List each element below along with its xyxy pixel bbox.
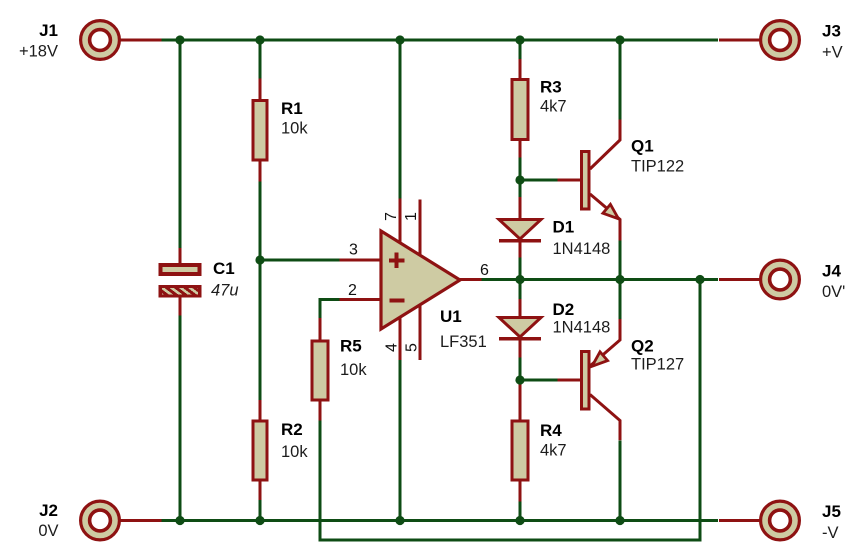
resistor R5 xyxy=(312,341,328,400)
wire opamp pin7 supply xyxy=(399,40,402,199)
pin U1 pin1 xyxy=(419,200,422,256)
svg-text:LF351: LF351 xyxy=(440,333,487,351)
pin C1 bottom xyxy=(179,297,182,316)
wire Q1 collector column xyxy=(619,40,622,120)
svg-text:-V: -V xyxy=(822,524,839,542)
pin D1 anode xyxy=(519,197,522,220)
svg-text:4k7: 4k7 xyxy=(540,98,567,116)
svg-text:2: 2 xyxy=(348,282,357,299)
resistor R1 xyxy=(253,101,267,161)
pin R3 bottom xyxy=(519,140,522,158)
svg-text:TIP122: TIP122 xyxy=(631,158,684,176)
pin U1 pin4 xyxy=(399,317,402,360)
svg-text:Q2: Q2 xyxy=(631,337,654,356)
node output / feedback xyxy=(695,275,704,284)
svg-text:J5: J5 xyxy=(822,502,841,521)
svg-text:1N4148: 1N4148 xyxy=(553,240,611,258)
node Q1 base xyxy=(515,175,524,184)
node output / emitters xyxy=(615,275,624,284)
wire D2 to base node xyxy=(519,358,522,381)
pin D1 cathode xyxy=(519,240,522,258)
pin D2 cathode xyxy=(519,339,522,358)
svg-text:0V: 0V xyxy=(38,522,58,540)
svg-text:5: 5 xyxy=(404,343,421,352)
resistor R4 xyxy=(512,421,528,480)
svg-text:U1: U1 xyxy=(440,307,462,326)
connector J2 xyxy=(81,501,120,540)
svg-text:6: 6 xyxy=(480,262,489,279)
wire Q1 emitter to output xyxy=(619,241,622,280)
svg-text:J2: J2 xyxy=(39,501,58,520)
pin R2 bottom xyxy=(259,480,262,500)
svg-text:1N4148: 1N4148 xyxy=(553,319,611,337)
wire R3 to base node xyxy=(519,158,522,198)
pin R1 bottom xyxy=(259,160,262,182)
svg-text:+V: +V xyxy=(822,44,843,62)
pin Q1 collector xyxy=(590,120,620,170)
wire Q2 emitter to output xyxy=(619,280,622,320)
pin J3 stub xyxy=(719,39,760,42)
pin R2 top xyxy=(259,400,262,421)
wire C1 column upper xyxy=(179,40,182,248)
op-amp U1 body xyxy=(381,231,460,329)
diode D2 xyxy=(499,318,541,339)
resistor R2 xyxy=(253,421,267,480)
node bottom rail / C1 xyxy=(175,516,184,525)
pin U1 pin2 xyxy=(340,298,382,301)
wire R1 column top xyxy=(259,40,262,79)
pin U1 pin6 output xyxy=(460,278,482,281)
pin J1 stub xyxy=(121,39,162,42)
node divider to pin3 xyxy=(255,255,264,264)
svg-text:10k: 10k xyxy=(340,361,367,379)
pin J2 stub xyxy=(121,519,162,522)
svg-text:R1: R1 xyxy=(281,99,303,118)
wire feedback R5 to output node xyxy=(320,280,700,541)
svg-text:D2: D2 xyxy=(553,300,575,319)
svg-text:J1: J1 xyxy=(39,21,58,40)
svg-text:7: 7 xyxy=(383,212,400,221)
node top rail / C1 xyxy=(175,35,184,44)
wire pin2 input bend xyxy=(320,300,340,319)
svg-text:R2: R2 xyxy=(281,420,303,439)
node top rail / pin7 xyxy=(395,35,404,44)
svg-text:C1: C1 xyxy=(213,259,235,278)
node bottom rail / pin4 xyxy=(395,516,404,525)
wire R2 bottom xyxy=(259,500,262,521)
pin J4 stub xyxy=(719,278,760,281)
wire output row xyxy=(481,278,718,281)
connector J1 xyxy=(81,21,120,60)
wire bottom rail xyxy=(161,519,718,522)
pin Q1 base xyxy=(558,179,581,182)
svg-text:1: 1 xyxy=(403,212,420,221)
capacitor C1 positive plate xyxy=(161,265,200,274)
wire Q2 collector column xyxy=(619,440,622,520)
svg-text:0V': 0V' xyxy=(822,283,845,301)
transistor Q1 emitter arrow xyxy=(603,204,619,219)
svg-text:47u: 47u xyxy=(211,282,239,300)
resistor R3 xyxy=(512,80,528,140)
svg-text:4: 4 xyxy=(384,343,401,352)
wire Q2 base xyxy=(520,379,558,382)
svg-text:R4: R4 xyxy=(540,421,562,440)
transistor Q1 body xyxy=(582,152,590,210)
connector J5 xyxy=(761,501,800,540)
pin Q2 emitter xyxy=(590,319,620,366)
connector J4 xyxy=(761,260,800,299)
svg-text:J4: J4 xyxy=(822,262,841,281)
pin Q2 base xyxy=(558,379,581,382)
connector J3 xyxy=(761,21,800,60)
svg-text:TIP127: TIP127 xyxy=(631,356,684,374)
pin R4 bottom xyxy=(519,480,522,502)
pin C1 top xyxy=(179,248,182,264)
svg-text:4k7: 4k7 xyxy=(540,442,567,460)
op-amp U1 plus symbol xyxy=(389,253,405,268)
pin J5 stub xyxy=(719,519,760,522)
pin R1 top xyxy=(259,79,262,101)
pin U1 pin7 xyxy=(399,199,402,244)
pin Q2 collector xyxy=(590,395,620,441)
svg-text:10k: 10k xyxy=(281,120,308,138)
svg-text:3: 3 xyxy=(349,242,358,259)
svg-text:J3: J3 xyxy=(822,22,841,41)
svg-text:+18V: +18V xyxy=(19,43,58,61)
wire R1-R2 middle column xyxy=(259,182,262,401)
node output / diodes xyxy=(515,275,524,284)
pin Q1 emitter xyxy=(590,194,620,241)
wire opamp pin4 supply xyxy=(399,360,402,521)
svg-text:10k: 10k xyxy=(281,443,308,461)
wire top rail xyxy=(161,39,718,42)
node Q2 base xyxy=(515,375,524,384)
pin U1 pin5 xyxy=(419,305,422,360)
wire R3 top xyxy=(519,40,522,59)
node bottom rail / R2 xyxy=(255,516,264,525)
wire R4 bottom xyxy=(519,502,522,521)
node top rail / Q1 collector xyxy=(615,35,624,44)
wire Q1 base xyxy=(520,179,558,182)
wire C1 column lower xyxy=(179,316,182,521)
op-amp U1 minus symbol xyxy=(389,298,404,302)
transistor Q2 emitter arrow xyxy=(592,352,608,367)
transistor Q2 body xyxy=(582,352,590,410)
wire D1 to output node xyxy=(519,258,522,300)
svg-text:R5: R5 xyxy=(340,337,362,356)
svg-text:R3: R3 xyxy=(540,78,562,97)
node bottom rail / Q2 collector xyxy=(615,516,624,525)
node bottom rail / R4 xyxy=(515,516,524,525)
node top rail / R3 xyxy=(515,35,524,44)
pin U1 pin3 xyxy=(340,259,382,262)
pin R5 bottom xyxy=(319,400,322,421)
svg-text:D1: D1 xyxy=(553,218,575,237)
capacitor C1 negative plate hatched xyxy=(153,285,208,299)
diode D1 xyxy=(499,220,541,241)
pin R5 top xyxy=(319,318,322,341)
svg-text:Q1: Q1 xyxy=(631,137,654,156)
pin R3 top xyxy=(519,59,522,79)
node top rail / R1 xyxy=(255,35,264,44)
wire pin3 input xyxy=(260,259,340,262)
pin D2 anode xyxy=(519,299,522,318)
pin R4 top xyxy=(519,380,522,422)
